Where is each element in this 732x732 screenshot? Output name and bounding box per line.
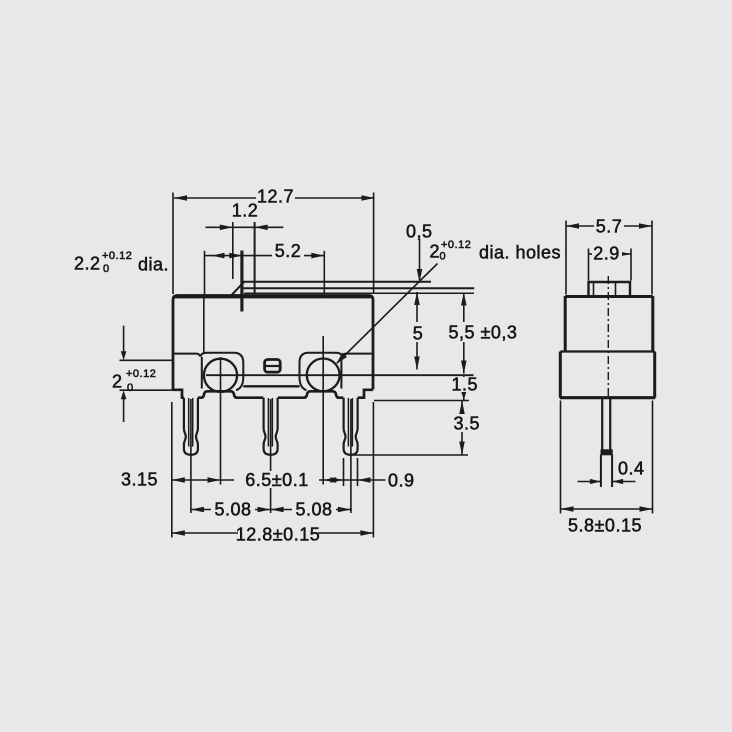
dim line 5,5 vertical xyxy=(463,293,465,374)
arrows dia 2 left xyxy=(121,351,127,360)
svg-text:5.08: 5.08 xyxy=(295,500,332,520)
label 6.5 +-0.1 xyxy=(234,471,319,488)
ext line hole2 center xyxy=(322,336,324,485)
svg-text:+0.12: +0.12 xyxy=(126,368,156,380)
switch body top edge (thick) xyxy=(173,295,373,298)
side view bottom edge xyxy=(560,396,655,399)
ext lines 5.7 xyxy=(566,221,652,295)
side view upper block xyxy=(565,296,653,352)
dim line 12.7 xyxy=(174,197,375,199)
side view centerline xyxy=(607,276,609,399)
svg-text:5.2: 5.2 xyxy=(275,241,302,261)
label 1.5 xyxy=(452,377,478,392)
dim line 6.5 row xyxy=(172,479,386,481)
arrow 2 dia leader xyxy=(336,353,347,365)
svg-text:+0.12: +0.12 xyxy=(441,239,471,251)
pin 3 terminal xyxy=(344,398,358,455)
ext lines 5.8 xyxy=(561,401,653,514)
arrows 5.8 xyxy=(561,506,574,512)
svg-text:3.15: 3.15 xyxy=(121,470,158,490)
button inner lines xyxy=(594,283,616,296)
svg-text:2.2: 2.2 xyxy=(74,254,101,274)
ext line pin3 center xyxy=(350,399,352,513)
mounting hole right xyxy=(307,359,340,392)
svg-text:dia.: dia. xyxy=(138,255,169,275)
pin 2 terminal xyxy=(264,398,278,455)
body bottom edge with corner notches and scallops xyxy=(173,390,373,398)
arrows 2.9 xyxy=(589,251,602,257)
arrows 5.7 xyxy=(566,223,579,229)
dim line 1.2 xyxy=(206,226,284,228)
arrows 12.8 xyxy=(172,530,185,536)
dim line 5.08 row xyxy=(191,509,352,511)
dim line 5.7 xyxy=(566,225,652,227)
ext line 5.2 right xyxy=(323,251,325,296)
label 2.9 xyxy=(592,245,622,260)
arrow 1.5 lower xyxy=(461,391,467,400)
plunger left side xyxy=(232,222,234,279)
dim line 5 vertical xyxy=(416,292,418,370)
side view pin crimp band xyxy=(601,449,613,455)
dim line 5.8 xyxy=(561,508,653,510)
arrows 3.5 xyxy=(459,401,465,414)
switch body outline (front view) xyxy=(173,296,373,390)
label 5.7 xyxy=(594,218,624,233)
svg-text:5: 5 xyxy=(413,324,424,344)
lever bend at plunger xyxy=(231,282,244,296)
label 12.7 xyxy=(256,188,295,204)
lever top line xyxy=(244,281,432,283)
svg-text:2.9: 2.9 xyxy=(593,244,620,264)
svg-text:1.5: 1.5 xyxy=(452,375,479,395)
svg-text:6.5±0.1: 6.5±0.1 xyxy=(245,470,308,490)
svg-text:1.2: 1.2 xyxy=(232,201,259,221)
contact window midline xyxy=(265,365,280,367)
pin 1 terminal xyxy=(184,398,198,455)
svg-text:3.5: 3.5 xyxy=(454,414,481,434)
ext line pin bottom right xyxy=(349,454,468,456)
ext line hole bottom tangent xyxy=(120,389,177,391)
left boss side xyxy=(201,357,203,389)
right boss side xyxy=(340,357,342,389)
reference line under lever xyxy=(244,292,474,294)
ext line pin3 right side xyxy=(357,458,359,486)
arrows 5.2 xyxy=(229,253,242,259)
svg-text:5,5 ±0,3: 5,5 ±0,3 xyxy=(449,323,518,343)
svg-text:5.8±0.15: 5.8±0.15 xyxy=(568,516,642,536)
ext line right 12.7 xyxy=(373,193,375,294)
holes common centerline horizontal xyxy=(206,374,474,376)
svg-text:5.08: 5.08 xyxy=(214,500,251,520)
plunger center stem xyxy=(240,251,243,312)
svg-text:0,5: 0,5 xyxy=(406,222,433,242)
arrows 12.7 xyxy=(174,195,187,201)
lever bottom line xyxy=(244,287,475,289)
label 12.8 +-0.15 xyxy=(238,524,318,541)
svg-text:0: 0 xyxy=(103,263,110,275)
arrows 5 xyxy=(414,292,420,305)
mounting hole left xyxy=(204,359,237,392)
ext line hole top tangent xyxy=(120,359,173,361)
arrows 1.2 (outside) xyxy=(220,225,233,231)
ext line left 12.7 xyxy=(172,193,174,295)
label 3.5 xyxy=(452,414,479,432)
svg-text:12.8±0.15: 12.8±0.15 xyxy=(236,525,320,545)
side view pin lower xyxy=(601,455,612,488)
svg-text:0.9: 0.9 xyxy=(388,471,415,491)
arrow 0,5 leader xyxy=(417,269,423,282)
ext line hole1 center xyxy=(220,357,222,485)
ext lines 2.9 xyxy=(589,249,632,281)
label 5.08 a xyxy=(211,501,255,517)
pin 3 slot xyxy=(348,398,352,447)
pin 2 slot xyxy=(268,398,272,447)
dim line 0.4 stubs xyxy=(578,481,636,483)
arrows 5.08 xyxy=(191,507,204,513)
arrows 0.4 (outside) xyxy=(590,479,601,484)
label 5,5 +-0,3 xyxy=(448,322,514,342)
label 5 xyxy=(411,322,424,342)
ext line body bottom right xyxy=(374,400,469,402)
dim 2 left: upper stub xyxy=(123,326,125,353)
dim line 12.8 row xyxy=(172,532,374,534)
arrows 0.9 xyxy=(331,477,344,483)
svg-text:0.4: 0.4 xyxy=(618,459,645,479)
right ledge line xyxy=(342,354,372,357)
leader 2 dia holes xyxy=(337,264,438,364)
arrows 5,5 xyxy=(461,293,467,306)
ext line body left lower xyxy=(171,402,173,538)
dim line 5.2 xyxy=(205,255,325,257)
dim 2 left: lower stub xyxy=(123,398,125,422)
arrows 3.15 / 6.5 xyxy=(172,477,185,483)
svg-text:dia. holes: dia. holes xyxy=(479,243,561,263)
side view button xyxy=(589,282,631,297)
side view lower block xyxy=(560,352,654,398)
dim line 2.9 xyxy=(589,253,632,255)
ext line pin2 center xyxy=(270,399,272,513)
svg-text:2: 2 xyxy=(430,242,441,262)
label 5.08 b xyxy=(292,501,336,517)
block junction line xyxy=(560,350,654,352)
leader 0,5 xyxy=(419,239,421,280)
dim line 3.5 vertical xyxy=(461,401,463,455)
svg-text:0: 0 xyxy=(127,382,134,394)
svg-text:12.7: 12.7 xyxy=(257,187,294,207)
label 5.2 xyxy=(272,245,304,258)
plunger right side xyxy=(254,222,256,294)
inner case line left xyxy=(203,298,205,353)
dim line 1.5 vertical xyxy=(463,376,465,400)
ext line body right lower xyxy=(372,402,374,538)
pin 1 slot xyxy=(189,398,193,447)
svg-text:0: 0 xyxy=(440,251,447,263)
side view pin upper xyxy=(602,398,610,450)
contact window xyxy=(265,360,281,373)
left hole boss xyxy=(200,353,243,390)
svg-text:+0.12: +0.12 xyxy=(102,250,132,262)
left ledge line xyxy=(174,354,200,357)
svg-text:5.7: 5.7 xyxy=(596,217,623,237)
right hole boss xyxy=(300,353,343,390)
ext line 5.2 left xyxy=(204,251,206,295)
ext line pin3 left side xyxy=(343,458,345,486)
bar between bosses xyxy=(243,385,299,387)
svg-text:2: 2 xyxy=(112,372,123,392)
ext line pin1 center xyxy=(190,399,192,513)
